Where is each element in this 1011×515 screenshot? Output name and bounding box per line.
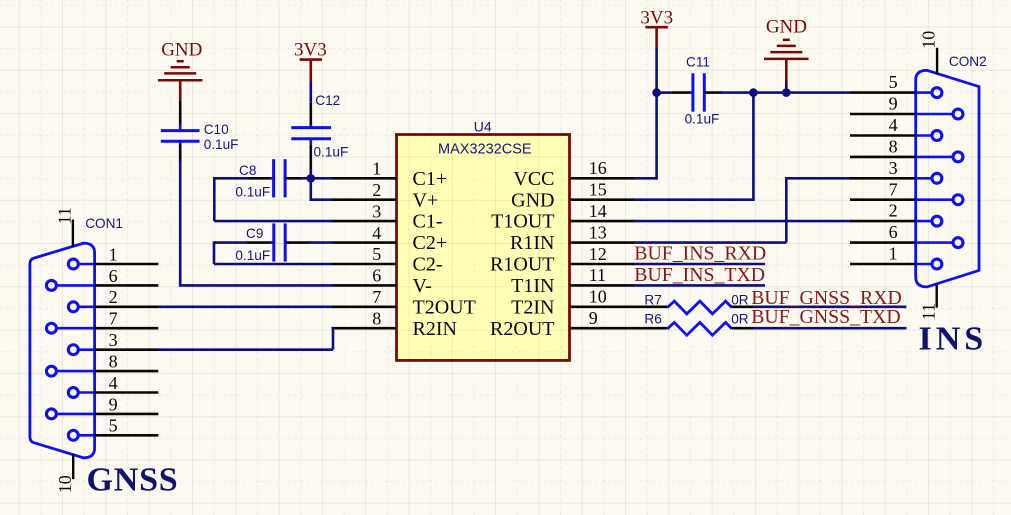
svg-text:7: 7 — [889, 179, 898, 199]
svg-text:V+: V+ — [413, 189, 439, 211]
pin 6 of CON2 — [916, 241, 953, 244]
wire top rail to C11 — [657, 91, 672, 94]
svg-text:0.1uF: 0.1uF — [235, 185, 270, 200]
svg-text:R2OUT: R2OUT — [490, 318, 554, 340]
capacitor C12 — [309, 125, 312, 128]
svg-text:0R: 0R — [731, 293, 749, 308]
svg-text:C2+: C2+ — [413, 232, 448, 254]
svg-text:14: 14 — [589, 201, 607, 221]
svg-text:T1OUT: T1OUT — [491, 211, 554, 233]
svg-text:T1IN: T1IN — [511, 275, 554, 297]
pin 10 of U4 — [570, 305, 635, 308]
svg-text:BUF_INS_RXD: BUF_INS_RXD — [634, 243, 766, 265]
pin 10 of CON2 — [936, 48, 938, 75]
svg-text:11: 11 — [589, 265, 606, 285]
svg-text:C9: C9 — [246, 226, 263, 241]
pin 3 of CON2 — [916, 177, 932, 180]
svg-text:6: 6 — [372, 266, 381, 286]
svg-text:11: 11 — [54, 207, 74, 224]
wire 3V3 to C12 — [309, 81, 312, 103]
svg-text:6: 6 — [889, 222, 898, 242]
svg-text:R1IN: R1IN — [510, 232, 554, 254]
svg-text:1: 1 — [372, 159, 381, 179]
svg-text:0R: 0R — [731, 311, 749, 326]
svg-text:2: 2 — [372, 180, 381, 200]
pin 6 of CON1 — [56, 284, 94, 287]
svg-text:GND: GND — [161, 39, 202, 60]
wire ground stem — [785, 81, 788, 93]
pin 5 of U4 — [332, 263, 397, 266]
pin 16 of U4 — [570, 177, 635, 180]
svg-text:7: 7 — [372, 287, 381, 307]
svg-text:10: 10 — [918, 31, 938, 49]
svg-text:R1OUT: R1OUT — [490, 254, 554, 276]
pin 5 of CON2 — [916, 91, 932, 94]
wire T1IN / BUF_INS_TXD — [634, 284, 766, 287]
pin 12 of U4 — [570, 263, 635, 266]
svg-text:3: 3 — [109, 330, 118, 350]
pin 2 of CON2 — [916, 220, 932, 223]
pin 13 of U4 — [570, 241, 635, 244]
svg-text:GNSS: GNSS — [87, 462, 179, 499]
pin 15 of U4 — [570, 198, 635, 201]
svg-text:C12: C12 — [315, 93, 340, 108]
svg-text:GND: GND — [766, 17, 807, 38]
svg-text:C1-: C1- — [413, 211, 443, 233]
pin 8 of CON1 — [56, 370, 94, 373]
svg-text:5: 5 — [109, 416, 118, 436]
pin 5 of CON1 — [78, 434, 94, 437]
svg-text:R6: R6 — [644, 311, 661, 326]
svg-text:1: 1 — [109, 244, 118, 264]
ground symbol (left) — [177, 60, 184, 63]
IC U4 border (MAX3232CSE) — [397, 135, 570, 361]
pin 4 of CON1 — [78, 391, 94, 394]
svg-text:4: 4 — [372, 223, 381, 243]
pin 7 of U4 — [332, 305, 397, 308]
pin 10 of CON1 — [72, 454, 74, 479]
svg-text:MAX3232CSE: MAX3232CSE — [438, 142, 532, 158]
svg-text:U4: U4 — [474, 119, 492, 135]
svg-text:15: 15 — [589, 180, 607, 200]
svg-text:10: 10 — [55, 475, 75, 493]
pin 1 of U4 — [332, 177, 397, 180]
svg-text:C8: C8 — [239, 163, 256, 178]
pin 8 of U4 — [332, 327, 397, 330]
connector CON1 body — [30, 243, 95, 458]
svg-text:2: 2 — [889, 201, 898, 221]
svg-text:BUF_INS_TXD: BUF_INS_TXD — [634, 264, 765, 286]
pin 11 of U4 — [570, 284, 635, 287]
svg-text:9: 9 — [109, 394, 118, 414]
pin 6 of U4 — [332, 284, 397, 287]
wire C1- — [214, 220, 332, 223]
svg-text:9: 9 — [589, 308, 598, 328]
resistor R7 — [634, 305, 668, 308]
svg-text:8: 8 — [372, 308, 381, 328]
pin 2 of CON1 — [78, 305, 94, 308]
svg-text:V-: V- — [413, 275, 432, 297]
wire BUF_GNSS_TXD — [753, 327, 906, 330]
wire T2OUT to CON1 pin 2 — [157, 305, 332, 308]
svg-text:0.1uF: 0.1uF — [685, 112, 720, 127]
wire R1IN to CON2 pin 3 — [634, 241, 787, 244]
connector CON2 body — [916, 70, 979, 287]
wire C9 left to C2- — [214, 241, 248, 244]
svg-text:3V3: 3V3 — [294, 39, 327, 60]
wire VCC — [634, 177, 657, 180]
pin 7 of CON1 — [56, 327, 94, 330]
svg-text:4: 4 — [109, 373, 118, 393]
capacitor C10 — [179, 124, 182, 130]
pin 3 of U4 — [332, 220, 397, 223]
IC U4 body fill (MAX3232CSE) — [397, 135, 570, 361]
svg-text:0.1uF: 0.1uF — [235, 248, 270, 263]
pin 9 of CON1 — [56, 413, 94, 416]
wire C2- — [214, 263, 333, 266]
svg-text:INS: INS — [919, 320, 988, 357]
svg-text:T2IN: T2IN — [511, 296, 554, 318]
svg-text:9: 9 — [889, 94, 898, 114]
wire node A to V+ — [309, 178, 312, 199]
svg-text:3V3: 3V3 — [640, 7, 673, 28]
pin 8 of CON2 — [916, 156, 953, 159]
pin 1 of CON1 — [78, 263, 94, 266]
ground symbol (right) — [783, 39, 790, 42]
pin 2 of U4 — [332, 198, 397, 201]
wire C8 left to C1- — [214, 177, 249, 180]
wire C10 to V- row — [179, 144, 182, 162]
svg-text:8: 8 — [109, 352, 118, 372]
svg-text:1: 1 — [889, 244, 898, 264]
svg-text:8: 8 — [889, 137, 898, 157]
wire C8 right to node A — [301, 177, 333, 180]
pin 3 of CON1 — [78, 348, 94, 351]
svg-text:3: 3 — [889, 158, 898, 178]
wire R2IN to CON1 pin 3 — [332, 327, 334, 330]
svg-text:0.1uF: 0.1uF — [314, 145, 349, 160]
resistor R6 — [634, 327, 668, 330]
svg-text:C1+: C1+ — [413, 168, 448, 190]
wire R1OUT / BUF_INS_RXD — [634, 263, 766, 266]
svg-text:2: 2 — [109, 287, 118, 307]
svg-text:5: 5 — [372, 244, 381, 264]
svg-text:4: 4 — [889, 115, 898, 135]
power port 3V3 (left) — [300, 58, 322, 61]
svg-text:C10: C10 — [204, 122, 229, 137]
svg-text:C2-: C2- — [413, 254, 443, 276]
pin 9 of CON2 — [916, 113, 953, 116]
wire GND to C10 — [179, 100, 182, 127]
svg-text:3: 3 — [372, 201, 381, 221]
capacitor C9 — [247, 241, 274, 244]
wire GND riser — [752, 93, 755, 201]
wire T1OUT to CON2 pin 2 — [634, 220, 852, 223]
wire 3V3 down to VCC — [655, 47, 658, 180]
wire C2+ — [309, 241, 333, 244]
svg-text:13: 13 — [589, 222, 607, 242]
svg-text:11: 11 — [918, 303, 938, 320]
pin 11 of CON2 — [936, 284, 938, 308]
svg-text:CON2: CON2 — [949, 54, 987, 69]
junction GND pin (U4 pin15 riser) — [749, 88, 758, 97]
capacitor C8 — [248, 177, 274, 180]
pin 7 of CON2 — [916, 198, 953, 201]
junction node A — [307, 174, 316, 183]
wire V- — [179, 284, 333, 287]
wire BUF_GNSS_RXD — [753, 305, 906, 308]
capacitor C11 — [689, 91, 693, 94]
svg-text:6: 6 — [109, 266, 118, 286]
wire C12 to node A — [309, 144, 312, 171]
junction ground / top rail — [782, 88, 791, 97]
pin 1 of CON2 — [916, 263, 932, 266]
pin 11 of CON1 — [72, 220, 74, 247]
svg-text:C11: C11 — [686, 55, 710, 70]
svg-text:10: 10 — [589, 287, 607, 307]
svg-text:0.1uF: 0.1uF — [204, 137, 239, 152]
pin 4 of CON2 — [916, 134, 932, 137]
junction 3V3 / top rail — [652, 88, 661, 97]
pin 9 of U4 — [570, 327, 635, 330]
svg-text:R2IN: R2IN — [413, 318, 457, 340]
svg-text:12: 12 — [589, 244, 607, 264]
power port 3V3 (right) — [645, 26, 667, 29]
svg-text:7: 7 — [109, 309, 118, 329]
pin 14 of U4 — [570, 220, 635, 223]
svg-text:CON1: CON1 — [85, 216, 123, 231]
svg-text:VCC: VCC — [513, 168, 554, 190]
svg-text:5: 5 — [889, 72, 898, 92]
svg-text:BUF_GNSS_TXD: BUF_GNSS_TXD — [751, 306, 901, 328]
svg-text:GND: GND — [511, 189, 554, 211]
svg-text:16: 16 — [589, 158, 607, 178]
svg-text:R7: R7 — [644, 293, 661, 308]
pin 4 of U4 — [332, 241, 397, 244]
wire C11 to GND junction — [704, 91, 722, 94]
svg-text:T2OUT: T2OUT — [413, 296, 476, 318]
